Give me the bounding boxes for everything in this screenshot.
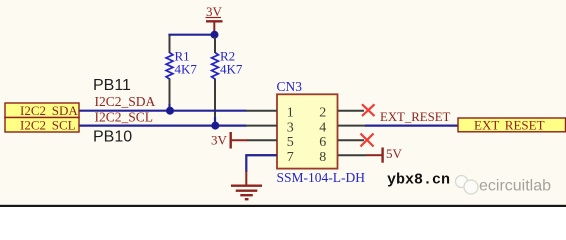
resistor R1 zigzag body	[166, 53, 173, 80]
junction node SCL / R2	[211, 122, 219, 130]
pin 3 stub	[246, 125, 277, 127]
svg-text:6: 6	[319, 135, 326, 150]
no-connect X pin 2	[362, 104, 375, 116]
svg-text:2: 2	[319, 106, 326, 121]
pin number 4	[319, 120, 326, 135]
pin number 5	[287, 135, 294, 150]
pin number 7	[287, 150, 294, 165]
wire R1 bottom to SDA net	[168, 104, 170, 111]
svg-text:EXT_RESET: EXT_RESET	[380, 110, 451, 124]
wire top horizontal from R1 to junction	[170, 35, 215, 36]
junction node at 3V rail / R2	[211, 31, 219, 39]
R1 value label 4K7	[175, 62, 198, 77]
port I2C2 SDA	[5, 103, 79, 118]
resistor R2 pin leads	[214, 37, 216, 118]
svg-text:I2C2 SDA: I2C2 SDA	[20, 103, 78, 118]
bottom separator line	[0, 205, 566, 209]
connector CN3 body	[277, 94, 338, 168]
wire net I2C2_SCL horizontal	[80, 124, 247, 126]
svg-text:3V: 3V	[206, 4, 223, 19]
watermark ecircuitlab	[479, 178, 551, 195]
CN3 designator label	[277, 79, 303, 94]
port I2C2 SCL	[5, 117, 79, 132]
svg-text:4K7: 4K7	[175, 62, 198, 77]
svg-text:1: 1	[287, 106, 294, 121]
R2 designator label	[220, 49, 235, 64]
pin 2 stub	[338, 110, 364, 112]
wire R2 bottom to SCL net	[214, 117, 216, 126]
svg-text:5V: 5V	[386, 146, 403, 161]
net label I2C2_SDA	[95, 94, 156, 109]
net label EXT_RESET	[380, 110, 451, 124]
power 3V left label	[211, 133, 228, 148]
power 3V top bar symbol	[206, 21, 223, 32]
ground stem	[245, 171, 247, 185]
svg-text:8: 8	[319, 150, 326, 165]
junction node SDA / R1	[166, 107, 174, 115]
svg-text:CN3: CN3	[277, 79, 303, 94]
R2 value label 4K7	[220, 62, 243, 77]
svg-text:3: 3	[287, 120, 294, 135]
svg-text:3V: 3V	[211, 133, 228, 148]
pin 5 stub	[247, 139, 277, 141]
pin number 3	[287, 120, 294, 135]
svg-text:ecircuitlab: ecircuitlab	[479, 178, 551, 195]
logo ecircuitlab icon	[456, 176, 479, 195]
pin number 2	[319, 106, 326, 121]
pin 1 stub	[246, 110, 277, 112]
power 5V bar symbol	[366, 148, 383, 163]
wire pin7 to ground	[246, 155, 277, 172]
pin 7 stub	[246, 154, 277, 156]
resistor R1 pin leads	[169, 36, 171, 106]
no-connect X pin 6	[361, 134, 374, 147]
svg-text:PB10: PB10	[93, 129, 132, 146]
net label I2C2_SCL	[95, 109, 154, 124]
resistor R2 zigzag body	[212, 53, 219, 80]
pin 4 stub	[338, 125, 366, 127]
wire EXT_RESET to port	[365, 124, 459, 126]
svg-text:ybx8.cn: ybx8.cn	[387, 172, 450, 189]
power 3V top label	[206, 4, 223, 19]
CN3 part number SSM-104-L-DH	[277, 170, 366, 185]
pin 6 stub	[338, 139, 364, 141]
svg-text:I2C2 SCL: I2C2 SCL	[20, 117, 76, 132]
watermark ybx8.cn	[387, 172, 450, 189]
svg-text:EXT RESET: EXT RESET	[474, 117, 545, 132]
svg-text:I2C2_SDA: I2C2_SDA	[95, 94, 156, 109]
svg-text:7: 7	[287, 150, 294, 165]
pin number 8	[319, 150, 326, 165]
power 5V label	[386, 146, 403, 161]
ground symbol	[231, 186, 262, 200]
svg-text:4K7: 4K7	[220, 62, 243, 77]
R1 designator label	[175, 49, 190, 64]
svg-text:5: 5	[287, 135, 294, 150]
svg-text:4: 4	[319, 120, 326, 135]
pin number 1	[287, 106, 294, 121]
pin 8 stub	[338, 154, 366, 156]
svg-text:SSM-104-L-DH: SSM-104-L-DH	[277, 170, 366, 185]
pin name label PB11	[93, 77, 131, 94]
power 3V left bar symbol	[231, 132, 248, 149]
wire net I2C2_SDA horizontal	[80, 110, 247, 112]
pin name label PB10	[93, 129, 132, 146]
svg-text:PB11: PB11	[93, 77, 131, 94]
pin number 6	[319, 135, 326, 150]
svg-text:I2C2_SCL: I2C2_SCL	[95, 109, 154, 124]
port EXT RESET	[458, 117, 566, 132]
